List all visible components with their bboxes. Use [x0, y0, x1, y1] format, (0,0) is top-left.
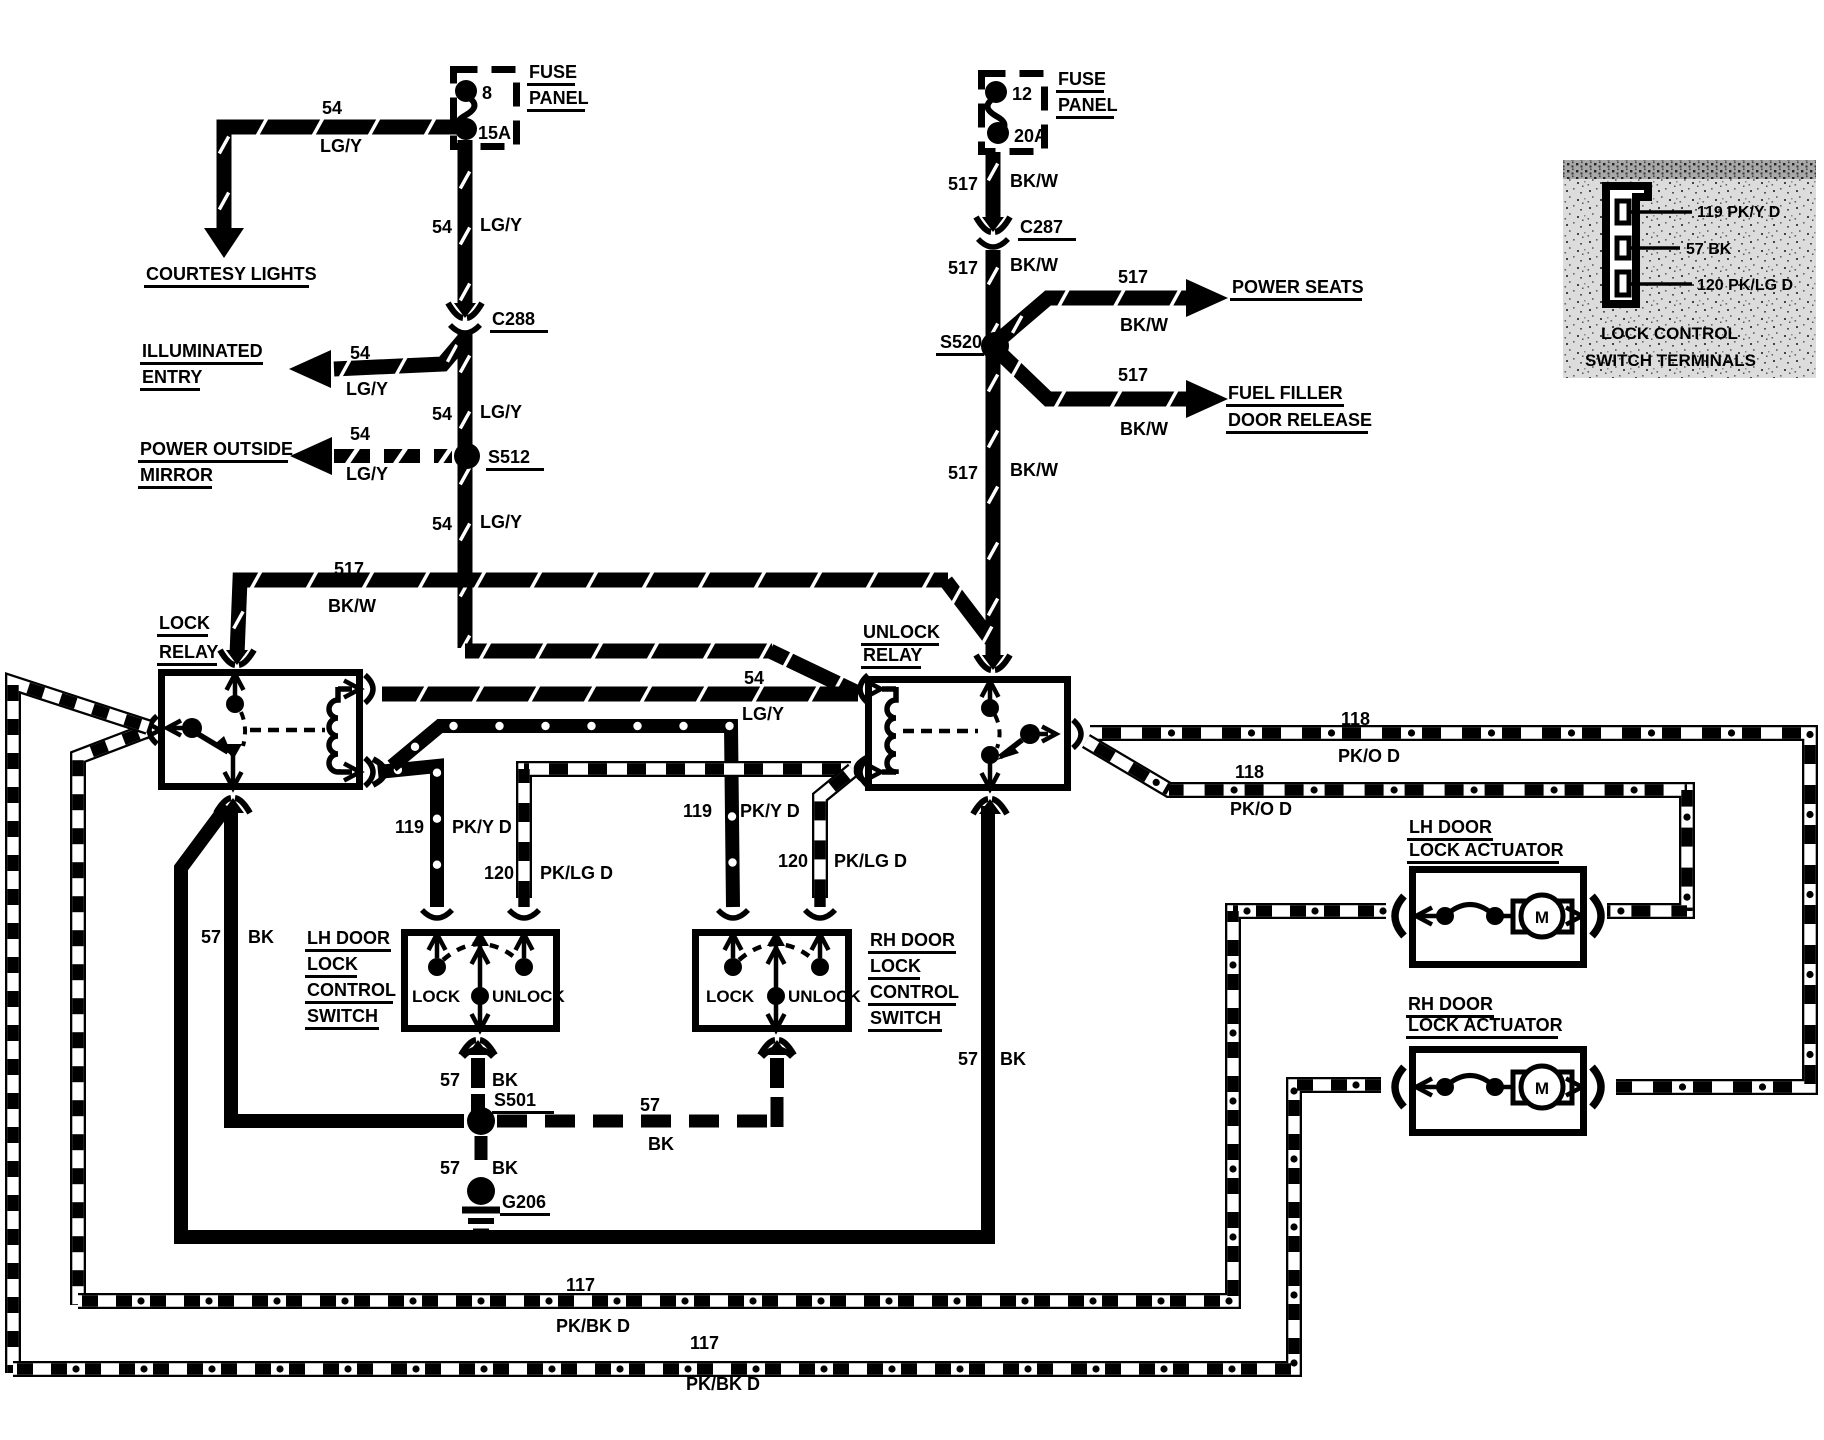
svg-text:UNLOCK: UNLOCK [863, 622, 940, 642]
splice S501 [467, 1107, 495, 1135]
svg-text:LG/Y: LG/Y [480, 512, 522, 532]
arrow to fuel filler door release [1186, 380, 1228, 418]
svg-text:LOCK: LOCK [870, 956, 921, 976]
wire 120 PK/LG D from unlock relay to LH switch [524, 769, 851, 898]
svg-text:PK/LG D: PK/LG D [834, 851, 907, 871]
svg-text:RELAY: RELAY [159, 642, 218, 662]
unlock relay coil [887, 687, 896, 774]
lock relay right pin connectors [365, 675, 373, 703]
svg-text:POWER OUTSIDE: POWER OUTSIDE [140, 439, 293, 459]
wire 54 LG/Y to courtesy lights [224, 127, 460, 228]
lock control switch connector body [1606, 186, 1648, 304]
svg-text:BK/W: BK/W [1120, 419, 1168, 439]
wire 57 BK from S501 to ground [475, 1136, 488, 1174]
connector C288 [454, 303, 476, 318]
svg-text:LOCK ACTUATOR: LOCK ACTUATOR [1408, 1015, 1563, 1035]
wire 517 branch to fuel filler door release [999, 352, 1188, 399]
wire 54 LG/Y vertical continues [458, 334, 473, 648]
svg-text:COURTESY LIGHTS: COURTESY LIGHTS [146, 264, 317, 284]
svg-text:LG/Y: LG/Y [480, 215, 522, 235]
svg-text:LH DOOR: LH DOOR [1409, 817, 1492, 837]
wire 517 BK/W continues [986, 250, 1001, 340]
arrow to power seats [1186, 279, 1228, 317]
lock relay internals - top contact [227, 674, 244, 690]
svg-text:8: 8 [482, 83, 492, 103]
svg-text:PK/BK D: PK/BK D [556, 1316, 630, 1336]
unlock relay coil pin arrows [865, 681, 881, 698]
unlock relay internals - common pin and armature [1020, 724, 1040, 744]
wire 54 branch to illuminated entry [334, 338, 465, 369]
svg-text:57: 57 [640, 1095, 660, 1115]
svg-text:517: 517 [948, 463, 978, 483]
wire 54 LG/Y vertical from fuse panel [458, 140, 473, 306]
unlock relay internals - travel arc dashed [995, 715, 1000, 748]
svg-text:517: 517 [948, 174, 978, 194]
svg-text:LOCK ACTUATOR: LOCK ACTUATOR [1409, 840, 1564, 860]
wire 57 BK from lock relay to splice S501 [231, 806, 464, 1121]
RH actuator side connectors [1395, 1067, 1404, 1107]
svg-text:MIRROR: MIRROR [140, 465, 213, 485]
svg-text:BK/W: BK/W [328, 596, 376, 616]
lock relay internals - dashed link to coil [250, 728, 325, 733]
unlock relay internals - dashed link to coil [903, 729, 978, 734]
svg-text:517: 517 [1118, 267, 1148, 287]
svg-text:BK/W: BK/W [1010, 460, 1058, 480]
svg-text:517: 517 [1118, 365, 1148, 385]
unlock relay internals - lower contact [981, 746, 999, 764]
lock relay bottom connector [222, 798, 244, 813]
arrow to illuminated entry [289, 350, 331, 388]
svg-text:119 PK/Y D: 119 PK/Y D [1697, 204, 1780, 221]
svg-text:LH DOOR: LH DOOR [307, 928, 390, 948]
svg-text:PK/LG D: PK/LG D [540, 863, 613, 883]
RH switch box [696, 933, 849, 1029]
lock relay coil pins arrows [344, 681, 360, 698]
RH switch bottom connector [766, 1040, 788, 1055]
svg-text:117: 117 [566, 1275, 595, 1295]
splice S520 [981, 332, 1009, 360]
wire 57 BK dashed from S501 to RH switch [497, 1115, 779, 1128]
svg-text:CONTROL: CONTROL [870, 982, 959, 1002]
LH actuator box [1413, 870, 1584, 965]
terminal 1 [1617, 201, 1629, 223]
terminal leader lines [1629, 210, 1692, 214]
svg-text:54: 54 [350, 424, 370, 444]
svg-text:119: 119 [683, 801, 712, 821]
LH switch internals [429, 934, 446, 950]
svg-text:BK: BK [1000, 1049, 1026, 1069]
svg-text:57: 57 [440, 1158, 460, 1178]
wire 119 PK/Y D branch to RH switch [392, 726, 733, 907]
RH switch terminal connectors [718, 910, 748, 918]
unlock relay box [869, 680, 1068, 788]
svg-text:120: 120 [484, 863, 514, 883]
svg-text:POWER SEATS: POWER SEATS [1232, 277, 1364, 297]
unlock relay lower left pin wings [857, 757, 868, 783]
svg-text:C288: C288 [492, 309, 535, 329]
svg-text:CONTROL: CONTROL [307, 980, 396, 1000]
svg-text:DOOR RELEASE: DOOR RELEASE [1228, 410, 1372, 430]
svg-text:LOCK CONTROL: LOCK CONTROL [1601, 324, 1738, 343]
LH switch bottom connector [467, 1040, 489, 1055]
ground G206 [467, 1177, 495, 1205]
svg-text:LOCK: LOCK [706, 987, 755, 1006]
svg-text:C287: C287 [1020, 217, 1063, 237]
LH actuator motor M [1513, 901, 1572, 932]
svg-text:ENTRY: ENTRY [142, 367, 202, 387]
svg-text:S512: S512 [488, 447, 530, 467]
svg-text:LG/Y: LG/Y [480, 402, 522, 422]
svg-text:RELAY: RELAY [863, 645, 922, 665]
svg-text:FUSE: FUSE [529, 62, 577, 82]
svg-text:LG/Y: LG/Y [320, 136, 362, 156]
svg-text:BK/W: BK/W [1120, 315, 1168, 335]
arrow to courtesy lights [204, 228, 244, 258]
svg-text:UNLOCK: UNLOCK [788, 987, 861, 1006]
dashed wire 54 to power outside mirror [334, 449, 452, 463]
terminal 2 [1617, 238, 1629, 258]
svg-text:FUSE: FUSE [1058, 69, 1106, 89]
svg-text:120: 120 [778, 851, 808, 871]
svg-text:BK: BK [648, 1134, 674, 1154]
svg-text:LG/Y: LG/Y [346, 464, 388, 484]
svg-text:PK/Y D: PK/Y D [740, 801, 800, 821]
unlock relay bottom connector [979, 799, 1001, 814]
wire 517 branch to power seats [999, 298, 1188, 340]
wire 517 BK/W from fuse panel 2 [986, 152, 1001, 220]
fuse panel 1 (left) dashed box [454, 70, 517, 147]
svg-text:S501: S501 [494, 1090, 536, 1110]
svg-text:BK/W: BK/W [1010, 171, 1058, 191]
unlock relay right pin connector [1073, 720, 1081, 748]
lock relay internals - common pin [167, 721, 181, 736]
svg-text:RH DOOR: RH DOOR [1408, 994, 1493, 1014]
svg-text:119: 119 [395, 817, 424, 837]
svg-text:BK/W: BK/W [1010, 255, 1058, 275]
svg-text:PK/Y D: PK/Y D [452, 817, 512, 837]
RH actuator motor M [1513, 1072, 1572, 1103]
svg-text:54: 54 [432, 404, 452, 424]
svg-text:SWITCH: SWITCH [870, 1008, 941, 1028]
splice S512 [454, 443, 480, 469]
svg-text:PK/BK D: PK/BK D [686, 1374, 760, 1394]
svg-text:54: 54 [432, 514, 452, 534]
svg-text:LOCK: LOCK [159, 613, 210, 633]
svg-text:54: 54 [432, 217, 452, 237]
LH actuator internals [1416, 908, 1432, 925]
svg-text:LG/Y: LG/Y [742, 704, 784, 724]
svg-text:ILLUMINATED: ILLUMINATED [142, 341, 263, 361]
wire 57 BK below LH switch [471, 1058, 485, 1088]
arrow to power outside mirror [290, 437, 332, 475]
svg-text:57: 57 [440, 1070, 460, 1090]
svg-text:PK/O D: PK/O D [1338, 746, 1400, 766]
lock relay internals - travel arc dashed [241, 712, 245, 746]
wire 517 BK/W vertical down to unlock relay [986, 353, 1001, 658]
svg-text:517: 517 [334, 559, 364, 579]
wire 118 PK/O D lower run to LH actuator [1086, 741, 1687, 911]
svg-text:57: 57 [958, 1049, 978, 1069]
unlock relay top connector [982, 655, 1004, 670]
svg-text:20A: 20A [1014, 126, 1047, 146]
svg-text:15A: 15A [478, 123, 511, 143]
svg-text:PANEL: PANEL [529, 88, 589, 108]
svg-text:FUEL FILLER: FUEL FILLER [1228, 383, 1343, 403]
wire 120 PK/LG D branch to RH switch [820, 770, 853, 898]
svg-text:RH DOOR: RH DOOR [870, 930, 955, 950]
wire 517 BK/W branch to lock relay [237, 580, 948, 655]
lock relay internals - lower contact to bottom pin [224, 744, 242, 760]
svg-text:S520: S520 [940, 332, 982, 352]
svg-text:M: M [1535, 908, 1549, 927]
svg-text:120 PK/LG D: 120 PK/LG D [1697, 277, 1793, 294]
svg-text:BK: BK [248, 927, 274, 947]
svg-text:54: 54 [744, 668, 764, 688]
svg-text:PK/O D: PK/O D [1230, 799, 1292, 819]
svg-text:BK: BK [492, 1070, 518, 1090]
lock relay left pin connector [149, 716, 157, 744]
svg-text:57 BK: 57 BK [1686, 241, 1732, 258]
RH actuator internals [1416, 1079, 1432, 1096]
svg-text:G206: G206 [502, 1192, 546, 1212]
terminal 3 [1617, 272, 1629, 295]
svg-text:SWITCH TERMINALS: SWITCH TERMINALS [1585, 351, 1756, 370]
wire 118 PK/O D upper run to RH actuator [1090, 733, 1810, 1087]
wire 54 LG/Y between lock and unlock relay coils [382, 687, 858, 702]
LH switch box [405, 933, 557, 1029]
wire 117 PK/BK D from lock relay via left edge to RH actuator [13, 683, 148, 1373]
svg-text:118: 118 [1235, 762, 1264, 782]
fuse F8 15A [455, 80, 477, 102]
svg-text:57: 57 [201, 927, 221, 947]
wire 119 PK/Y D from lock relay to LH switch [378, 766, 437, 907]
connector C287 [982, 217, 1004, 232]
LH actuator side connectors [1395, 896, 1404, 936]
unlock relay internals - top contact [982, 681, 999, 697]
svg-text:PANEL: PANEL [1058, 95, 1118, 115]
lock relay box [162, 673, 360, 787]
svg-text:517: 517 [948, 258, 978, 278]
unlock relay left pin connectors [860, 675, 868, 703]
lock relay top connector [226, 650, 248, 665]
svg-text:LG/Y: LG/Y [346, 379, 388, 399]
svg-text:54: 54 [350, 343, 370, 363]
RH actuator box [1413, 1050, 1584, 1133]
svg-text:BK: BK [492, 1158, 518, 1178]
LH switch terminal connectors [422, 910, 452, 918]
svg-text:54: 54 [322, 98, 342, 118]
svg-text:LOCK: LOCK [412, 987, 461, 1006]
svg-text:118: 118 [1341, 709, 1370, 729]
RH switch internals [725, 934, 742, 950]
fuse F12 20A [985, 81, 1007, 103]
svg-text:117: 117 [690, 1333, 719, 1353]
wire 54 turn to relays [465, 644, 772, 659]
lock relay coil [329, 687, 338, 774]
fuse panel 2 (middle) dashed box [982, 74, 1045, 152]
wire 117 PK/BK D from lock relay via left edge to LH actuator [78, 731, 146, 1305]
lock relay internals - armature [198, 734, 228, 752]
svg-text:12: 12 [1012, 84, 1032, 104]
svg-text:SWITCH: SWITCH [307, 1006, 378, 1026]
lock relay lower right pin wings [373, 759, 384, 785]
svg-text:M: M [1535, 1079, 1549, 1098]
svg-text:UNLOCK: UNLOCK [492, 987, 565, 1006]
wire 57 BK from lock relay to unlock relay along bottom [181, 806, 988, 1237]
svg-text:LOCK: LOCK [307, 954, 358, 974]
